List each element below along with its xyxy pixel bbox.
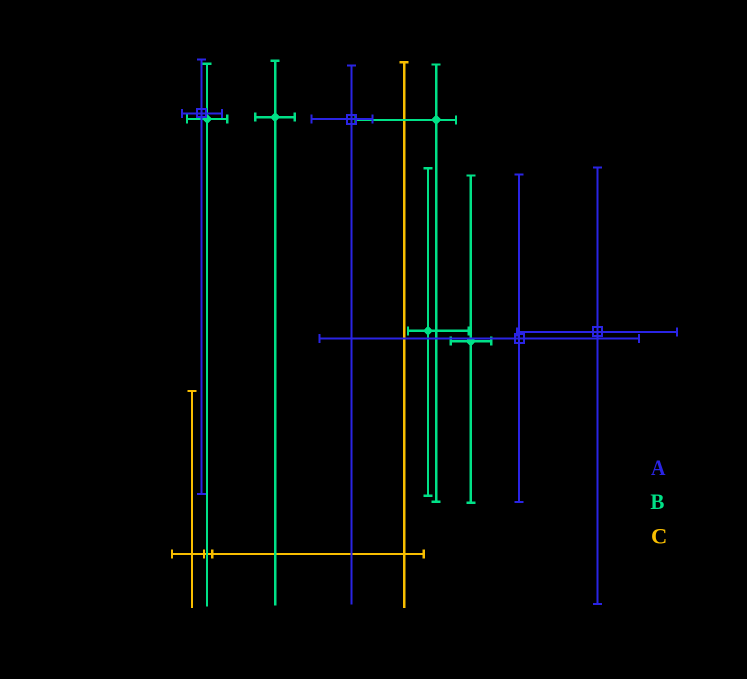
svg-text:B: B — [650, 489, 664, 514]
svg-text:C: C — [651, 523, 667, 548]
svg-text:A: A — [651, 455, 666, 480]
